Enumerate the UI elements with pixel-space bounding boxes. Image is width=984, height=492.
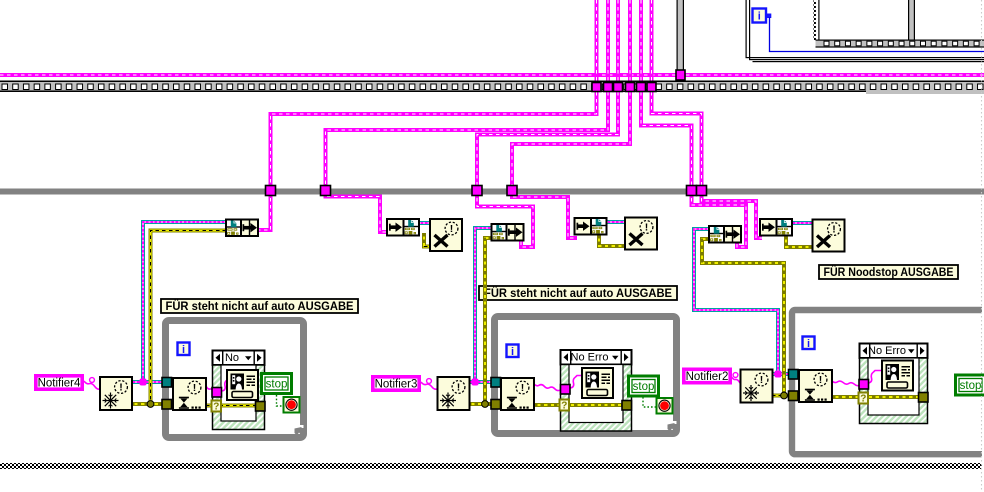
wire - strip to junction A3	[641, 92, 692, 190]
bottom cut edge (checkered line)	[0, 463, 982, 469]
svg-text:Notifier4: Notifier4	[38, 378, 81, 390]
wire - refnum send to release (group 3)	[791, 221, 812, 225]
iteration terminal i (group 3)	[803, 337, 815, 351]
case selector terminal ? (group 1)	[212, 401, 222, 413]
send notification node (group 2)	[575, 218, 607, 235]
svg-text:!: !	[193, 382, 197, 394]
junction dot refnum (group 1)	[140, 379, 147, 386]
stop boolean terminal (group 2)	[629, 376, 659, 396]
wire - notifier refnum from status node left down to loop (group 1)	[143, 222, 226, 382]
case structure (group 3) selector No Erro	[860, 344, 928, 424]
svg-text:!: !	[760, 374, 764, 386]
dialog icon (group 2)	[582, 368, 613, 398]
svg-text:FÜR steht nicht auf auto AUSGA: FÜR steht nicht auf auto AUSGABE	[484, 285, 672, 300]
flat sequence structure bottom border (film strip, full width)	[0, 81, 984, 95]
junction dot refnum (group 2)	[472, 379, 479, 386]
for-loop iteration terminal i (top right)	[753, 9, 772, 23]
wire - stop boolean dotted (group 1)	[277, 395, 285, 406]
notifier status node (group 3)	[709, 226, 741, 243]
label - FUR steht nicht auf auto AUSGABE (group 1)	[161, 298, 358, 313]
tunnel - gray line junction A1	[266, 186, 276, 196]
case selector terminal ? (group 2)	[560, 400, 570, 412]
tunnel - case error out (group 2)	[622, 401, 632, 411]
tunnel - gray line junction B2	[507, 186, 517, 196]
while loop (group 2)	[495, 317, 677, 434]
svg-text:i: i	[182, 344, 185, 356]
svg-text:No Erro: No Erro	[571, 352, 609, 364]
tunnel - strip junction 1	[592, 83, 601, 92]
stop boolean terminal (group 1)	[262, 374, 292, 394]
notifier status node (group 1)	[226, 220, 258, 237]
svg-text:FÜR Noodstop AUSGABE: FÜR Noodstop AUSGABE	[824, 264, 954, 279]
wire - strip to junction A1	[271, 92, 597, 190]
stop boolean terminal (group 3)	[956, 375, 984, 395]
svg-text:!: !	[645, 222, 649, 234]
junction dot error (group 2)	[482, 401, 489, 408]
wire - squiggle wait to case tunnel (group 2)	[534, 384, 560, 391]
loop condition stop button (group 1)	[284, 397, 300, 413]
send notification node (group 1)	[387, 219, 419, 236]
wire - error into loop tunnel (group 3)	[772, 393, 800, 397]
wire - error into loop tunnel (group 2)	[468, 402, 503, 406]
wire - error wait to case selector (group 3)	[832, 395, 920, 399]
release notifier node (group 3)	[813, 220, 845, 252]
svg-text:!: !	[521, 382, 525, 394]
wire - vertical from top 1	[595, 0, 599, 81]
while loop (group 3, cut at right edge)	[792, 310, 982, 454]
tunnel - strip junction 3	[614, 83, 623, 92]
svg-text:!: !	[457, 382, 461, 394]
obtain notifier node (group 1)	[100, 377, 132, 410]
wire - strip to junction B1	[326, 92, 609, 190]
wire - junction B3 under line to send node (group 3)	[702, 191, 763, 238]
wire - refnum into loop tunnel (group 1)	[131, 380, 175, 384]
case structure (group 1) selector No	[213, 351, 265, 430]
tunnel - loop refnum (group 3)	[789, 370, 799, 380]
wait on notification node (group 3)	[799, 370, 832, 402]
svg-text:!: !	[819, 374, 823, 386]
blue wire from i terminal	[770, 17, 984, 52]
svg-text:Notifier2: Notifier2	[686, 371, 729, 383]
inner flat sequence frame divider (top right)	[908, 0, 915, 40]
tunnel - divider crossing	[676, 70, 685, 80]
tunnel - strip junction 4	[626, 83, 635, 92]
svg-text:i: i	[758, 11, 761, 23]
wire - vertical from top 6	[650, 0, 654, 81]
svg-text:stop: stop	[960, 380, 982, 392]
wire - error cluster status node left down (group 3)	[702, 239, 784, 395]
wait on notification node (group 2)	[501, 378, 534, 410]
wire - squiggle Notifier2 to obtain (group 3)	[731, 373, 740, 383]
wire - notifier refnum status node left down to loop (group 3)	[694, 229, 778, 374]
wire - junction A3 wrap-around to status node (group 3)	[692, 191, 747, 247]
wire - junction A2 wrap-around to status node (group 2)	[477, 191, 533, 247]
label - FUR Noodstop AUSGABE (group 3)	[819, 264, 958, 279]
inner flat sequence bottom border (film strip)	[816, 40, 984, 48]
loop condition stop button (group 2)	[657, 398, 673, 414]
dialog icon (group 1)	[227, 370, 258, 400]
visible-area dotted line (right)	[981, 0, 983, 492]
case selector terminal ? (group 3)	[859, 393, 869, 405]
wire - error send to release (group 2)	[599, 235, 625, 246]
svg-text:FÜR steht nicht auf auto AUSGA: FÜR steht nicht auf auto AUSGABE	[166, 298, 354, 313]
wire - squiggle wait to case tunnel (group 3)	[832, 381, 860, 386]
wire - junction A1 down to status node output	[258, 191, 271, 230]
svg-text:!: !	[119, 382, 123, 394]
tunnel - gray line junction A2	[472, 186, 482, 196]
svg-text:No: No	[225, 352, 239, 364]
svg-text:!: !	[832, 224, 836, 236]
release notifier node (group 1)	[430, 219, 462, 251]
label - FUR steht nicht auf auto AUSGABE (group 2)	[479, 285, 677, 300]
wire - refnum send node to release node (group 1)	[419, 221, 430, 225]
iteration terminal i (group 2)	[507, 345, 519, 359]
wire - error wait to case selector (group 2)	[534, 403, 624, 407]
iteration terminal i (group 1)	[178, 343, 190, 357]
while loop (group 1)	[166, 321, 304, 438]
obtain notifier node (group 2)	[438, 377, 470, 410]
junction dot refnum (group 3)	[775, 371, 782, 378]
wire - refnum send to release (group 2)	[606, 220, 625, 224]
wire - refnum into loop tunnel (group 2)	[468, 380, 503, 384]
wire - squiggle Notifier4 to obtain (group 1)	[84, 378, 100, 390]
outer structure left edge (black lines)	[746, 0, 751, 60]
wire - strip to junction B3	[652, 92, 702, 190]
svg-text:i: i	[511, 346, 514, 358]
tunnel - strip junction 5	[637, 83, 646, 92]
tunnel - loop refnum (group 2)	[491, 378, 501, 388]
wire - vertical from top 5	[639, 0, 643, 81]
tunnel - gray line junction B1	[321, 186, 331, 196]
wire - error cluster status node left down (group 2)	[485, 238, 492, 404]
wire - squiggle case tunnel to dialog icon (group 1)	[222, 379, 228, 392]
send notification node (group 3)	[760, 219, 792, 236]
tunnel - case input (group 1)	[212, 388, 222, 398]
tunnel - loop error (group 3)	[789, 391, 799, 401]
tunnel - gray line junction A3	[687, 186, 697, 196]
tunnel - strip junction 2	[604, 83, 613, 92]
wire - notifier refnum status node left down to loop (group 2)	[475, 228, 492, 382]
outer while-loop border (horizontal gray line)	[0, 189, 984, 195]
svg-text:No Erro: No Erro	[868, 345, 906, 357]
junction dot error (group 1)	[147, 401, 154, 408]
case structure (group 2) selector No Erro	[561, 350, 632, 431]
release notifier node (group 2)	[625, 218, 657, 250]
wire - stop boolean dotted (group 2)	[643, 397, 658, 407]
wire - vertical from top 2	[606, 0, 610, 81]
wait on notification node (group 1)	[173, 378, 206, 410]
constant label Notifier2	[684, 369, 730, 383]
notifier status node (group 2)	[492, 224, 524, 241]
wire - squiggle wait to case tunnel (group 1)	[206, 386, 214, 392]
wire - squiggle case tunnel to dialog icon (group 3)	[869, 371, 883, 384]
svg-text:i: i	[807, 338, 810, 350]
constant label Notifier4	[36, 376, 82, 390]
svg-text:Notifier3: Notifier3	[375, 379, 418, 391]
wire - long horizontal notifier wire	[0, 73, 984, 77]
constant label Notifier3	[373, 377, 419, 391]
svg-text:?: ?	[561, 401, 567, 412]
wire - error cluster from status node left down (group 1)	[151, 231, 227, 405]
inner flat sequence (top right) cut left edge (checkered)	[814, 0, 820, 40]
wire - error send node to release node (group 1)	[424, 233, 430, 247]
tunnel - case input (group 2)	[561, 385, 571, 395]
svg-text:stop: stop	[633, 381, 655, 393]
tunnel - strip junction 6	[647, 83, 656, 92]
tunnel - case input (group 3)	[859, 380, 869, 390]
tunnel - loop refnum (group 1)	[162, 378, 172, 388]
junction dot error (group 3)	[781, 392, 788, 399]
wire - junction B1 under line to send node	[326, 191, 389, 232]
outer structure bottom edges (stacked black lines)	[746, 57, 984, 62]
wire - error send to release (group 3)	[786, 236, 812, 247]
dialog icon (group 3)	[882, 361, 913, 391]
wire - error wait to case selector (group 1)	[206, 403, 257, 407]
svg-text:?: ?	[213, 402, 219, 413]
wire - refnum into loop tunnel (group 3)	[772, 372, 800, 376]
wire - error into loop tunnel (group 1)	[131, 402, 175, 406]
wire - squiggle case tunnel to dialog icon (group 2)	[571, 376, 583, 389]
svg-text:stop: stop	[266, 379, 288, 391]
tunnel - loop error (group 2)	[491, 400, 501, 410]
tunnel - gray line junction B3	[697, 186, 707, 196]
flat sequence frame divider (vertical silver bar)	[677, 0, 685, 81]
wire - strip to junction B2	[512, 92, 630, 190]
wire - squiggle Notifier3 to obtain (group 2)	[421, 379, 437, 390]
tunnel - loop error (group 1)	[162, 400, 172, 410]
wire - junction B2 under line to send node (group 2)	[512, 191, 577, 238]
svg-text:!: !	[450, 223, 454, 235]
obtain notifier node (group 3)	[741, 370, 773, 403]
tunnel - case error out (group 3)	[919, 393, 929, 403]
wire - vertical from top 3	[616, 0, 620, 81]
svg-text:?: ?	[860, 394, 866, 405]
tunnel - case error out (group 1)	[256, 402, 266, 412]
wire - strip to junction A2	[477, 92, 618, 190]
wire - vertical from top 4	[628, 0, 632, 81]
